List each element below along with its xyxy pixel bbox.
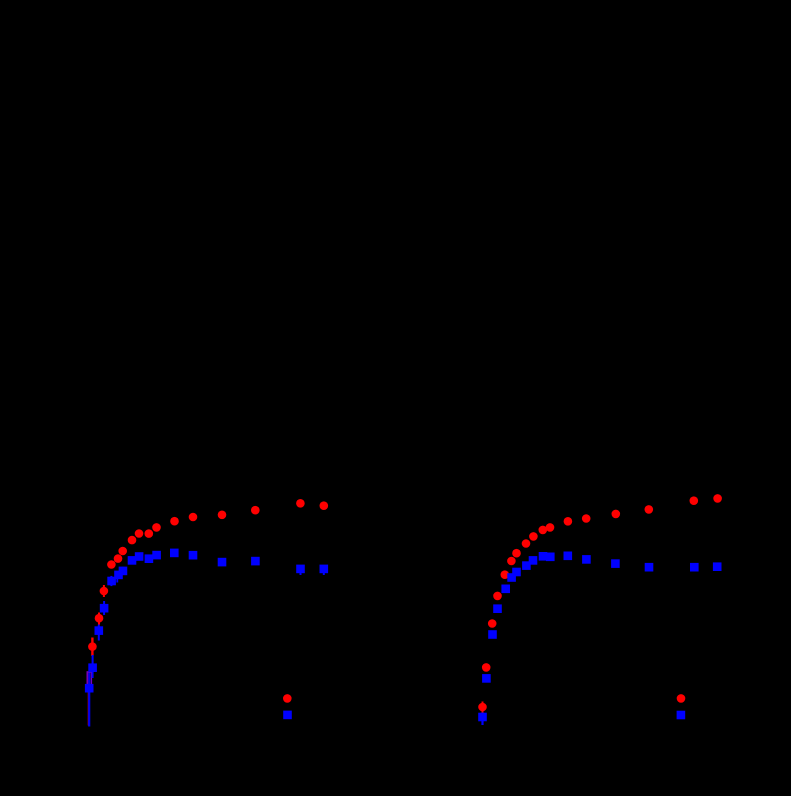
right panel red circle point 12 bbox=[564, 517, 573, 526]
right panel blue square point 6 bbox=[507, 573, 516, 582]
left panel red circle point 8 bbox=[135, 529, 144, 538]
right panel red circle point 10 bbox=[539, 526, 548, 535]
right panel red circle point 13 bbox=[582, 514, 591, 523]
right panel red circle point 3 bbox=[488, 619, 497, 628]
left panel red circle point 15 bbox=[296, 499, 305, 508]
right panel legend blue square bbox=[677, 711, 686, 720]
left panel legend red circle bbox=[283, 694, 292, 703]
left panel red circle point 5 bbox=[114, 554, 123, 563]
left panel red circle point 7 bbox=[128, 536, 137, 545]
left panel blue square point 11 bbox=[152, 551, 161, 560]
right panel legend red circle bbox=[677, 694, 686, 703]
right panel blue square point 5 bbox=[501, 585, 510, 594]
left panel blue square point 16 bbox=[296, 565, 305, 574]
left panel red circle point 11 bbox=[170, 517, 179, 526]
right panel red circle point 11 bbox=[546, 523, 555, 532]
right panel blue square point 15 bbox=[645, 563, 654, 572]
right panel blue square point 7 bbox=[512, 568, 521, 577]
right panel blue square point 3 bbox=[488, 630, 497, 639]
left panel: error bar blue point x=104 bbox=[103, 601, 105, 615]
left panel red circle point 13 bbox=[218, 511, 227, 520]
left panel blue square point 9 bbox=[135, 552, 144, 561]
right panel red circle point 1 bbox=[478, 703, 487, 712]
right panel red circle point 4 bbox=[493, 592, 502, 601]
left panel blue square point 4 bbox=[100, 604, 109, 613]
left panel blue square point 5 bbox=[107, 577, 116, 586]
left panel legend blue square bbox=[283, 711, 292, 720]
left panel blue square point 13 bbox=[189, 551, 198, 560]
left panel red circle point 14 bbox=[251, 506, 260, 515]
left panel red circle point 12 bbox=[189, 513, 198, 522]
right panel: error bar red lowest point bbox=[482, 702, 484, 713]
right panel red circle point 8 bbox=[522, 539, 531, 548]
left panel red circle point 4 bbox=[107, 560, 116, 569]
right panel red circle point 15 bbox=[645, 505, 654, 514]
left panel: error bar blue point x=112 bbox=[110, 576, 112, 586]
left panel red circle point 6 bbox=[118, 547, 127, 556]
left panel blue square point 2 bbox=[88, 663, 97, 672]
right panel red circle point 6 bbox=[507, 557, 516, 566]
left panel red circle point 10 bbox=[152, 523, 161, 532]
right panel blue square point 13 bbox=[582, 555, 591, 564]
right panel red circle point 2 bbox=[482, 663, 491, 672]
right panel red circle point 7 bbox=[512, 549, 521, 558]
right panel blue square point 4 bbox=[493, 604, 502, 613]
right panel blue square point 12 bbox=[564, 552, 573, 561]
left panel blue square point 10 bbox=[145, 554, 154, 563]
right panel blue square point 8 bbox=[522, 561, 531, 570]
left panel: tiny tail blue point x=300 bbox=[300, 571, 302, 575]
right panel red circle point 16 bbox=[690, 496, 699, 505]
left panel: error bar tick blue point x=123 bbox=[122, 567, 124, 573]
left panel red circle point 16 bbox=[320, 501, 329, 510]
right panel: error bar blue lowest point bbox=[481, 713, 483, 726]
left panel blue square point 1 bbox=[85, 684, 94, 693]
left panel blue square point 3 bbox=[95, 626, 104, 635]
left panel: error bar red point x=99 bbox=[98, 613, 100, 625]
left panel: error bar blue point x=99 bbox=[98, 625, 100, 641]
left panel: red error bar underlay of lowest point bbox=[88, 673, 90, 726]
left panel blue square point 7 bbox=[119, 567, 128, 576]
left panel: error bar blue point x=93 bbox=[92, 655, 94, 678]
right panel red circle point 17 bbox=[713, 494, 722, 503]
left panel: tiny tail blue point x=324 bbox=[323, 571, 325, 575]
left panel blue square point 17 bbox=[320, 565, 329, 574]
left panel blue square point 6 bbox=[114, 571, 123, 580]
left panel blue square point 12 bbox=[170, 549, 179, 558]
left panel red circle point 1 bbox=[88, 642, 97, 651]
right panel red circle point 5 bbox=[501, 570, 510, 579]
left panel blue square point 8 bbox=[128, 556, 137, 565]
left panel blue square point 14 bbox=[218, 558, 227, 567]
left panel red circle point 3 bbox=[100, 587, 109, 596]
left panel red circle point 9 bbox=[145, 529, 154, 538]
right panel blue square point 9 bbox=[529, 556, 538, 565]
left panel: error bar red point x=92 bbox=[91, 638, 93, 657]
right panel blue square point 1 bbox=[478, 713, 487, 722]
left panel: long error bar of lowest blue point bbox=[88, 672, 90, 727]
left panel: error bar blue point x=118 bbox=[116, 571, 118, 583]
right panel blue square point 2 bbox=[482, 674, 491, 683]
left panel blue square point 15 bbox=[251, 557, 260, 566]
right panel red circle point 14 bbox=[612, 510, 621, 519]
right panel blue square point 16 bbox=[690, 563, 699, 572]
left panel: error bar red point x=104 bbox=[103, 585, 105, 597]
right panel blue square point 11 bbox=[546, 553, 555, 562]
left panel: systematic error box (purple) on lowest blue point bbox=[87, 672, 91, 686]
left panel red circle point 2 bbox=[95, 614, 104, 623]
right panel blue square point 14 bbox=[611, 559, 620, 568]
right panel blue square point 17 bbox=[713, 562, 722, 571]
right panel red circle point 9 bbox=[529, 532, 538, 541]
right panel blue square point 10 bbox=[539, 552, 548, 561]
